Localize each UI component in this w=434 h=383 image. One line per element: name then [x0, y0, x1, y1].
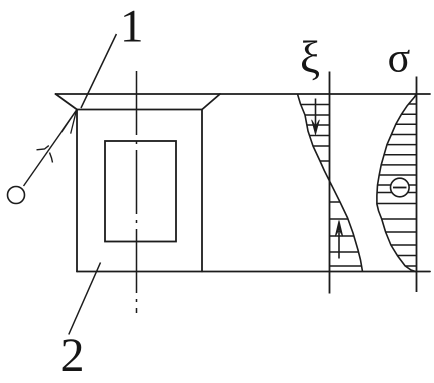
electrode leader [24, 110, 77, 186]
svg-text:ξ: ξ [300, 33, 320, 83]
xi curve [298, 94, 363, 272]
tick mark on leader [37, 146, 53, 163]
body top edge [77, 109, 202, 111]
body left edge [76, 110, 78, 272]
bottom surface line [77, 271, 430, 273]
weld cap left slant [56, 94, 78, 110]
xi hatches [293, 105, 366, 267]
sigma hatches [374, 104, 417, 266]
inner rectangle [105, 141, 176, 242]
leader 2 [69, 263, 101, 335]
weld cap right slant [202, 94, 220, 110]
sigma axis [416, 77, 418, 293]
sigma curve [377, 94, 417, 272]
svg-text:1: 1 [120, 1, 144, 53]
body divider [201, 110, 203, 272]
centerline [136, 71, 138, 313]
up arrow [335, 221, 343, 259]
electrode circle [8, 187, 25, 204]
leader 1 [81, 34, 116, 108]
electrode leader arrowhead [62, 110, 77, 133]
top surface line [56, 93, 431, 95]
minus symbol [391, 178, 410, 197]
svg-text:2: 2 [61, 329, 85, 382]
xi axis [329, 72, 331, 294]
svg-text:σ: σ [388, 36, 411, 82]
down arrow [312, 99, 320, 135]
